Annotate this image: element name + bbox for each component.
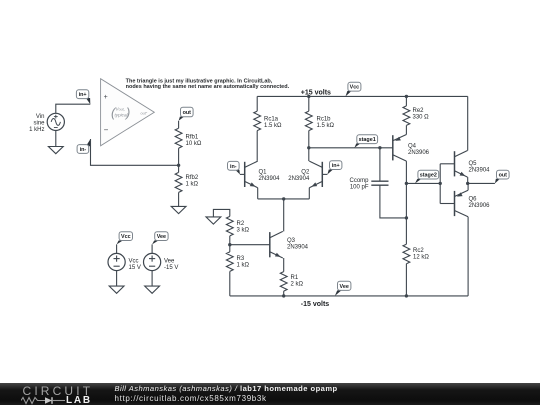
wire stage2 to Rc2 xyxy=(405,183,407,244)
svg-text:Vcc: Vcc xyxy=(121,234,131,240)
svg-text:2N3904: 2N3904 xyxy=(259,176,281,182)
resistor R3 xyxy=(226,252,233,272)
svg-text:in+: in+ xyxy=(79,92,87,98)
net flag stage1 xyxy=(354,135,377,148)
junction stage1/Ccomp xyxy=(378,146,381,149)
net flag Vee (supply) xyxy=(152,232,168,245)
svg-text:Rc1a: Rc1a xyxy=(264,117,279,123)
wire Vee source to ground xyxy=(151,271,153,286)
svg-text:Q5: Q5 xyxy=(469,161,478,167)
wire out flag to Rfb1 xyxy=(178,121,180,128)
svg-text:Vee: Vee xyxy=(157,234,166,240)
svg-text:nodes having the same net name: nodes having the same net name are autom… xyxy=(126,84,290,90)
svg-text:Q4: Q4 xyxy=(408,143,417,149)
junction Rfb1/Rfb2/in- xyxy=(177,164,180,167)
wire Vin top to in+ node xyxy=(56,104,91,113)
net flag in- (at divider) xyxy=(77,139,90,153)
wire Q5 collector to rail xyxy=(467,96,469,150)
wire rail to Rc1a xyxy=(256,96,258,111)
svg-text:−: − xyxy=(104,126,109,135)
CircuitLab logo xyxy=(23,386,94,396)
resistor Re2 xyxy=(403,106,410,126)
junction rail/R1 xyxy=(282,294,285,297)
wire Ccomp to stage2 node xyxy=(380,185,407,218)
resistor Rfb1 xyxy=(175,128,182,148)
svg-text:in-: in- xyxy=(230,164,237,170)
Vin sine symbol xyxy=(51,118,60,125)
junction emitters/Q3 xyxy=(282,197,285,200)
svg-text:Rfb2: Rfb2 xyxy=(186,175,199,181)
wire Vee flag to source xyxy=(151,244,153,253)
ground (R2 top) xyxy=(206,217,221,224)
wire Q3 base xyxy=(230,244,270,246)
wire Q6 collector to bottom rail xyxy=(467,217,469,296)
svg-text:2 kΩ: 2 kΩ xyxy=(291,282,304,288)
net flag Vee (bottom rail) xyxy=(335,281,351,296)
wire R2 to R3 xyxy=(229,236,231,252)
transistor Q1 2N3904 (NPN) xyxy=(245,161,258,188)
wire Q2 emitter down xyxy=(308,188,310,199)
wire stage1 net xyxy=(309,147,393,149)
wire junction to Rfb2 xyxy=(178,165,180,172)
wire Q6 base xyxy=(440,203,454,205)
wire -15V bottom rail xyxy=(230,295,468,297)
svg-text:15 V: 15 V xyxy=(129,265,141,271)
resistor R1 xyxy=(280,272,287,292)
svg-text:2N3904: 2N3904 xyxy=(469,168,491,174)
svg-text:2N3906: 2N3906 xyxy=(408,150,430,156)
svg-text:-15 V: -15 V xyxy=(164,265,178,271)
junction rail/Rc2 xyxy=(405,294,408,297)
wire Q5 base xyxy=(440,163,454,165)
svg-text:Vcc: Vcc xyxy=(129,259,139,265)
svg-text:Vee: Vee xyxy=(340,284,349,290)
svg-text:1 kΩ: 1 kΩ xyxy=(186,182,199,188)
wire emitter join xyxy=(258,198,310,200)
footer bar xyxy=(0,383,540,405)
svg-text:1 kΩ: 1 kΩ xyxy=(237,263,250,269)
junction rail/Re2 xyxy=(405,95,408,98)
svg-text:-15 volts: -15 volts xyxy=(301,301,330,308)
net flag in+ (at Vin) xyxy=(76,90,90,104)
junction rail/Rc1b xyxy=(307,95,310,98)
wire Rfb1 to junction xyxy=(178,148,180,165)
logo resistor + diode glyph xyxy=(21,396,65,405)
wire rail to Re2 xyxy=(405,96,407,106)
net flag Vcc (top rail) xyxy=(346,82,361,96)
wire Re2 to Q4 emitter xyxy=(405,125,407,134)
ground (below Vin) xyxy=(48,147,63,154)
wire Q1 emitter down xyxy=(257,188,259,199)
svg-text:Q3: Q3 xyxy=(287,238,296,244)
wire Rfb2 to ground xyxy=(178,192,180,206)
net flag in+ (at Q2) xyxy=(327,161,342,175)
svg-text:1 kHz: 1 kHz xyxy=(29,127,44,133)
wire Q6 emitter to out xyxy=(467,183,469,190)
wire to out flag xyxy=(468,182,495,184)
wire Rc1b to stage1 junction xyxy=(308,131,310,148)
junction R2/R3/Q3 base xyxy=(228,243,231,246)
net flag Vcc (supply) xyxy=(117,232,133,245)
net flag in- (at Q1) xyxy=(228,161,240,174)
capacitor Ccomp 100 pF xyxy=(371,181,388,185)
svg-text:12 kΩ: 12 kΩ xyxy=(413,255,429,261)
op-amp illustrative triangle xyxy=(101,79,155,146)
svg-text:in+: in+ xyxy=(332,163,340,169)
svg-text:Vout,: Vout, xyxy=(116,107,125,112)
resistor R2 xyxy=(226,216,233,236)
svg-text:2N3904: 2N3904 xyxy=(288,176,310,182)
wire Q2 base xyxy=(322,173,327,175)
wire stage1 to Ccomp xyxy=(379,148,381,181)
svg-text:10 kΩ: 10 kΩ xyxy=(186,141,202,147)
voltage source Vee supply xyxy=(144,253,161,270)
net flag out (output) xyxy=(495,170,509,183)
ground (Vcc source) xyxy=(109,286,124,293)
svg-text:Q6: Q6 xyxy=(469,196,478,202)
svg-text:330 Ω: 330 Ω xyxy=(413,115,430,121)
junction output node xyxy=(466,182,469,185)
svg-text:Rc2: Rc2 xyxy=(413,248,424,254)
handwritten (Vout typical) sketch xyxy=(111,105,148,120)
footer credit text xyxy=(115,384,338,404)
junction Ccomp/Rc2 line xyxy=(405,216,408,219)
svg-text:Vcc: Vcc xyxy=(350,85,360,91)
wire in- net to divider xyxy=(91,139,179,165)
wire Q5 emitter to out xyxy=(467,177,469,183)
svg-text:Vee: Vee xyxy=(164,259,175,265)
resistor Rc1a xyxy=(254,111,261,131)
svg-text:out: out xyxy=(499,173,508,179)
svg-text:sine: sine xyxy=(33,120,45,126)
transistor Q3 2N3904 (NPN) xyxy=(270,231,283,258)
svg-text:in-: in- xyxy=(80,147,87,153)
wire Q4 collector down xyxy=(405,161,407,183)
svg-text:Vin: Vin xyxy=(36,114,45,120)
svg-text:1.5 kΩ: 1.5 kΩ xyxy=(317,123,335,129)
svg-text:out: out xyxy=(183,110,192,116)
svg-text:100 pF: 100 pF xyxy=(350,184,369,190)
transistor Q5 2N3904 (NPN) xyxy=(455,151,468,178)
ground (below Rfb2) xyxy=(171,206,186,213)
Vin value label xyxy=(29,114,45,133)
LAB wordmark xyxy=(66,395,92,406)
svg-text:2N3906: 2N3906 xyxy=(469,203,491,209)
svg-text:+: + xyxy=(104,94,108,101)
resistor Rfb2 xyxy=(175,172,182,192)
svg-text:Rfb1: Rfb1 xyxy=(186,135,199,141)
svg-text:typical: typical xyxy=(115,113,129,118)
svg-text:3 kΩ: 3 kΩ xyxy=(237,227,250,233)
svg-text:Ccomp: Ccomp xyxy=(349,178,369,184)
wire Vcc flag to source xyxy=(116,244,118,253)
svg-text:2N3904: 2N3904 xyxy=(287,244,309,250)
svg-text:Rc1b: Rc1b xyxy=(317,117,332,123)
junction stage2/base line xyxy=(439,182,442,185)
net flag stage2 xyxy=(415,170,439,183)
wire R1 to bottom rail xyxy=(283,291,285,296)
resistor Rc2 xyxy=(403,244,410,264)
svg-text:R2: R2 xyxy=(237,221,245,227)
wire Q3 emitter to R1 xyxy=(283,258,285,272)
svg-text:stage2: stage2 xyxy=(420,173,437,179)
transistor Q6 2N3906 (PNP) xyxy=(455,190,469,217)
wire Rc1a to Q1 collector xyxy=(256,131,258,161)
transistor Q4 2N3906 (PNP) xyxy=(393,135,407,162)
voltage source Vin xyxy=(47,113,64,130)
wire Rc2 to bottom rail xyxy=(405,264,407,296)
svg-text:Q1: Q1 xyxy=(259,170,268,176)
svg-text:out”: out” xyxy=(141,112,148,116)
junction Rc1b/stage1 xyxy=(307,146,310,149)
wire to Q3 collector xyxy=(283,199,285,232)
wire rail to Rc1b xyxy=(308,96,310,111)
wire R3 to bottom rail xyxy=(229,271,231,296)
wire Vcc source to ground xyxy=(116,271,118,286)
ground (Vee source) xyxy=(145,286,160,293)
wire Q5/Q6 base line xyxy=(439,164,441,204)
wire +15V top rail xyxy=(257,95,468,97)
svg-text:R3: R3 xyxy=(237,256,245,262)
junction Q4/stage2/Rc2 xyxy=(405,182,408,185)
svg-text:Re2: Re2 xyxy=(413,108,425,114)
wire R2 to ground xyxy=(213,209,229,217)
voltage source Vcc supply xyxy=(108,253,125,270)
wire stage2 net xyxy=(406,182,440,184)
svg-text:+15 volts: +15 volts xyxy=(301,90,331,97)
svg-text:1.5 kΩ: 1.5 kΩ xyxy=(264,123,282,129)
svg-text:stage1: stage1 xyxy=(359,137,376,143)
net flag out (at Rfb1) xyxy=(179,107,194,121)
wire Q1 base xyxy=(240,173,245,175)
wire Vin to ground xyxy=(55,131,57,147)
svg-text:R1: R1 xyxy=(291,275,299,281)
transistor Q2 2N3904 (NPN) xyxy=(309,161,322,188)
svg-text:Q2: Q2 xyxy=(301,170,310,176)
wire stage1 junction to Q2 collector xyxy=(308,148,310,161)
resistor Rc1b xyxy=(305,111,312,131)
